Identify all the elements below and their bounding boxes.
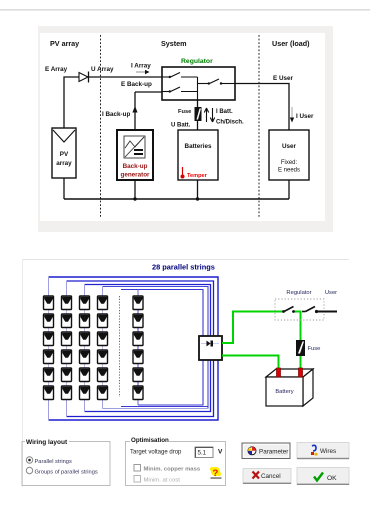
string 3 loop wire xyxy=(85,285,211,412)
svg-text:array: array xyxy=(56,160,72,167)
svg-text:U Batt.: U Batt. xyxy=(171,123,191,129)
label E User xyxy=(273,75,294,82)
zone label System xyxy=(161,39,187,48)
svg-text:Wires: Wires xyxy=(320,448,336,455)
svg-text:Optimisation: Optimisation xyxy=(131,437,169,444)
svg-text:E Array: E Array xyxy=(45,66,68,73)
arrow I User xyxy=(290,107,314,123)
PV module string 2 modules xyxy=(62,296,72,400)
svg-text:E Back-up: E Back-up xyxy=(121,81,152,88)
svg-text:E User: E User xyxy=(273,75,294,82)
wire user to bottom bus xyxy=(288,180,290,199)
zone divider dashed line System/User xyxy=(258,35,260,218)
svg-text:Batteries: Batteries xyxy=(185,143,212,150)
label Target voltage drop xyxy=(130,450,182,456)
junction dot backup/bus xyxy=(133,197,136,200)
green wire junction box to battery minus xyxy=(222,356,279,370)
wire PV box to bottom bus xyxy=(63,178,65,199)
svg-text:PV array: PV array xyxy=(50,39,79,48)
PV module string 3 modules xyxy=(80,296,90,400)
dialog top border xyxy=(22,259,349,487)
junction dot batteries/bus xyxy=(196,197,199,200)
label I Back-up xyxy=(102,111,130,118)
svg-text:User: User xyxy=(325,290,337,296)
svg-text:28 parallel strings: 28 parallel strings xyxy=(152,263,215,272)
battery terminal minus xyxy=(277,368,281,377)
batteries box xyxy=(178,130,218,180)
thermometer icon with Temper label xyxy=(181,167,208,179)
wire back-up generator up with arrow xyxy=(132,92,137,130)
label U Batt. xyxy=(171,123,191,129)
wire regulator to battery xyxy=(197,100,199,130)
regulator box U1 xyxy=(162,67,235,100)
svg-text:I User: I User xyxy=(296,113,314,120)
regulator internal switch bottom xyxy=(162,87,198,93)
svg-text:Parallel strings: Parallel strings xyxy=(35,459,72,465)
svg-text:Fixed:: Fixed: xyxy=(281,160,298,166)
svg-text:V: V xyxy=(218,449,223,456)
svg-text:Regulator: Regulator xyxy=(286,290,311,296)
ellipsis dotted divider xyxy=(119,296,121,397)
wire array to regulator xyxy=(64,77,162,128)
bottom return bus wire xyxy=(64,198,289,200)
junction box xyxy=(199,336,222,360)
zone divider dashed line PV/System xyxy=(100,35,102,218)
svg-text:User: User xyxy=(282,143,297,150)
voltage input field xyxy=(195,447,213,458)
svg-text:OK: OK xyxy=(327,475,337,482)
svg-text:5.1: 5.1 xyxy=(198,450,207,457)
svg-text:Fuse: Fuse xyxy=(308,346,321,352)
svg-text:Battery: Battery xyxy=(275,389,293,395)
regulator internal switch top xyxy=(162,73,198,79)
svg-text:Groups of parallel strings: Groups of parallel strings xyxy=(35,470,98,476)
svg-text:User (load): User (load) xyxy=(272,39,310,48)
regulator internal node vertical xyxy=(197,77,199,100)
green wire junction box to regulator xyxy=(222,312,283,344)
regulator internal switch output xyxy=(198,79,236,85)
label Regulator xyxy=(181,58,213,65)
svg-text:Back-up: Back-up xyxy=(123,163,148,170)
string 4 loop wire xyxy=(103,287,209,409)
svg-text:Minim. copper mass: Minim. copper mass xyxy=(144,467,201,473)
charge/discharge arrows xyxy=(204,108,214,122)
switch user output xyxy=(302,307,337,314)
PV array box xyxy=(52,128,76,178)
radio Parallel strings (selected) xyxy=(26,457,72,465)
button Cancel xyxy=(243,469,291,485)
label Regulator (bottom) xyxy=(286,290,311,296)
svg-text:Cancel: Cancel xyxy=(261,473,281,480)
wire batteries to bottom bus xyxy=(197,180,199,199)
user box xyxy=(269,130,309,180)
svg-text:Regulator: Regulator xyxy=(181,58,213,65)
top separator line xyxy=(0,9,370,11)
label I Array with arrow xyxy=(131,63,151,75)
svg-text:System: System xyxy=(161,39,187,48)
PV module string 5 modules xyxy=(133,296,143,400)
button Parameter xyxy=(242,443,290,459)
svg-text:Wiring layout: Wiring layout xyxy=(26,439,68,446)
battery 3D box xyxy=(266,369,313,406)
string 1 loop wire xyxy=(49,277,219,420)
label E Array xyxy=(45,66,68,73)
svg-text:Fuse: Fuse xyxy=(178,109,191,115)
svg-text:PV: PV xyxy=(60,151,69,158)
PV module string 4 modules xyxy=(98,296,108,400)
svg-text:U Array: U Array xyxy=(91,66,114,73)
radio Groups of parallel strings xyxy=(26,467,98,475)
checkbox Minim. copper mass xyxy=(134,465,201,473)
green wire fuse to battery plus xyxy=(300,355,302,369)
label Fuse (bottom) xyxy=(308,346,321,352)
label V xyxy=(218,449,223,456)
wire back-up generator to bottom bus xyxy=(134,180,136,199)
string 5 loop wire xyxy=(121,290,203,406)
help question mark icon xyxy=(210,467,222,479)
label E Back-up xyxy=(121,81,152,88)
fuse (battery line) xyxy=(296,340,305,356)
zone label PV array xyxy=(50,39,79,48)
label I Batt. Ch/Disch. xyxy=(216,109,244,126)
blocking diode D1 xyxy=(79,72,89,83)
column string connector verticals xyxy=(49,297,139,399)
svg-text:Ch/Disch.: Ch/Disch. xyxy=(216,120,244,126)
switch regulator input xyxy=(282,307,295,313)
fuse F1 symbol xyxy=(195,107,202,121)
title 28 parallel strings xyxy=(152,263,215,272)
zone label User (load) xyxy=(272,39,310,48)
checkbox Minim. at cost xyxy=(134,476,180,484)
top schematic panel background xyxy=(38,26,333,232)
regulator dotted box xyxy=(275,299,324,320)
svg-text:I Batt.: I Batt. xyxy=(216,109,233,115)
svg-text:E needs: E needs xyxy=(278,168,300,174)
green wire between switches xyxy=(294,311,302,313)
svg-text:Temper: Temper xyxy=(187,173,208,179)
wire back-up to regulator xyxy=(135,91,162,93)
svg-text:Minim. at cost: Minim. at cost xyxy=(144,478,181,484)
button OK xyxy=(297,468,349,486)
label Fuse xyxy=(178,109,191,115)
battery terminal plus xyxy=(299,368,303,377)
optimisation groupbox xyxy=(126,434,226,486)
string 2 loop wire xyxy=(67,281,214,417)
label User (bottom) xyxy=(325,290,337,296)
button Wires xyxy=(297,443,349,460)
green wire regulator node down to fuse xyxy=(300,312,302,341)
svg-text:Target voltage drop: Target voltage drop xyxy=(130,450,182,456)
back-up generator box xyxy=(117,130,153,180)
svg-text:I Back-up: I Back-up xyxy=(102,111,130,118)
svg-text:generator: generator xyxy=(120,172,150,179)
svg-text:Parameter: Parameter xyxy=(259,449,288,456)
svg-text:I Array: I Array xyxy=(131,63,151,70)
label U Array xyxy=(91,66,114,73)
wiring layout groupbox xyxy=(22,436,110,486)
PV module string 1 modules xyxy=(44,296,54,400)
wire regulator to user xyxy=(235,84,289,131)
